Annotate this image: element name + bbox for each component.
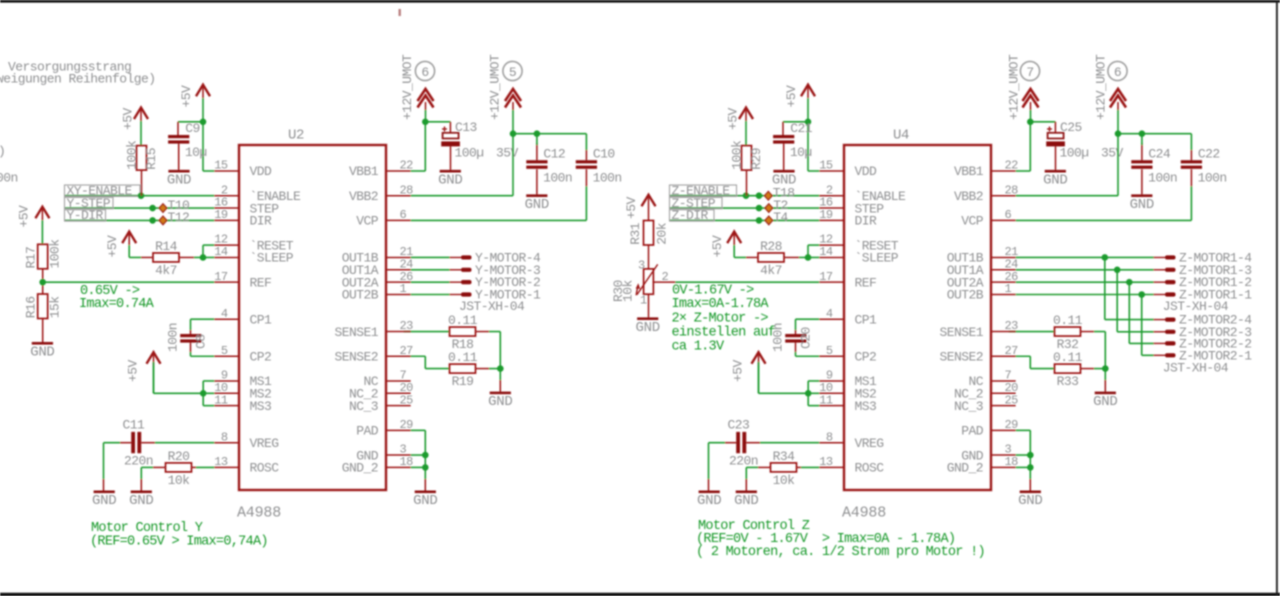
svg-text:18: 18 (1005, 455, 1019, 469)
supply +5V (121, 107, 149, 145)
wire (141, 442, 155, 444)
U4 pin 9 MS1 (819, 369, 877, 390)
svg-text:GND: GND (438, 172, 462, 188)
svg-text:CP2: CP2 (855, 349, 877, 364)
wire (1190, 186, 1192, 220)
svg-text:14: 14 (214, 245, 228, 259)
wire (404, 331, 450, 333)
svg-text:VCP: VCP (961, 214, 984, 229)
net Y-MOTOR-4 flag (450, 250, 542, 265)
wire (796, 318, 820, 320)
wire (1116, 270, 1118, 332)
wire (1081, 331, 1095, 333)
svg-text:+12V_UMOT: +12V_UMOT (488, 54, 503, 120)
wire (808, 170, 819, 172)
U4 pin 11 MS3 (819, 393, 876, 414)
wire (709, 442, 726, 444)
ground (488, 392, 512, 411)
svg-text:C10: C10 (593, 146, 615, 161)
wire (808, 392, 819, 394)
junction (1027, 464, 1034, 471)
U2 pin 17 REF (214, 270, 271, 291)
wire (1081, 368, 1095, 370)
junction (510, 130, 517, 137)
svg-text:C11: C11 (123, 418, 146, 433)
wire (1104, 380, 1106, 392)
svg-text:4: 4 (826, 307, 833, 321)
U2 pin 29 PAD (356, 418, 413, 439)
svg-text:29: 29 (400, 418, 414, 432)
wire (153, 362, 155, 393)
svg-text:): ) (0, 144, 5, 159)
wire (202, 245, 204, 257)
svg-text:OUT2B: OUT2B (947, 288, 984, 303)
supply +5V (126, 352, 161, 393)
svg-text:4: 4 (221, 307, 228, 321)
caption Motor Control Y (91, 521, 203, 536)
wire (782, 122, 784, 135)
svg-text:ROSC: ROSC (250, 461, 280, 476)
ground (1130, 194, 1154, 213)
svg-text:JST-XH-04: JST-XH-04 (1163, 361, 1229, 376)
wire (1016, 269, 1154, 271)
junction (756, 217, 763, 224)
wire (177, 122, 179, 135)
connector label JST-XH-04 (1163, 361, 1229, 376)
ground (1043, 170, 1067, 189)
U4 pin 20 NC_2 (954, 381, 1018, 402)
svg-text:1: 1 (640, 294, 647, 308)
wire (425, 368, 449, 370)
svg-text:R17: R17 (24, 247, 39, 269)
test point T2 (765, 198, 788, 213)
net Z-MOTOR1-1 flag (1154, 288, 1253, 303)
wire (513, 133, 586, 135)
svg-text:R15: R15 (144, 148, 159, 170)
U4 pin 10 MS2 (819, 381, 876, 402)
svg-text:100k: 100k (730, 140, 745, 170)
wire (411, 256, 450, 258)
wire (202, 381, 204, 406)
junction (1027, 452, 1034, 459)
U2 pin 3 GND (356, 443, 410, 464)
svg-text:CP1: CP1 (250, 312, 273, 327)
supply +5V (731, 352, 766, 393)
svg-text:6: 6 (400, 208, 407, 222)
wire (512, 134, 514, 196)
wire (536, 135, 538, 145)
supply +5V (105, 232, 136, 258)
wire (194, 256, 203, 258)
wire (154, 392, 204, 394)
net label Y-DIR (65, 208, 106, 223)
wire (734, 256, 746, 258)
svg-text:C24: C24 (1148, 146, 1171, 161)
svg-text:+12V_UMOT: +12V_UMOT (1094, 54, 1109, 120)
wire (801, 466, 819, 468)
ground (636, 317, 660, 336)
svg-text:6: 6 (421, 65, 428, 80)
junction (422, 452, 429, 459)
svg-text:A4988: A4988 (842, 505, 886, 522)
svg-text:+5V: +5V (624, 196, 639, 219)
resistor R16 (24, 294, 63, 319)
wire (42, 318, 44, 342)
wire (746, 256, 758, 258)
test point T12 (159, 210, 189, 225)
supply +5V (710, 232, 741, 258)
supply +5V (784, 85, 815, 122)
svg-text:C8: C8 (194, 334, 209, 349)
wire (1117, 134, 1119, 196)
svg-text:VCP: VCP (356, 214, 379, 229)
svg-text:GND: GND (734, 493, 758, 509)
svg-text:NC_3: NC_3 (954, 399, 983, 414)
capacitor C12 (526, 146, 572, 185)
junction (422, 119, 429, 126)
annotation 0.65V (80, 284, 140, 299)
wire (203, 405, 214, 407)
svg-text:13: 13 (819, 455, 833, 469)
wire (190, 343, 192, 352)
svg-text:NC_3: NC_3 (349, 399, 378, 414)
wire (191, 355, 215, 357)
svg-text:10k: 10k (168, 473, 191, 488)
junction (1138, 291, 1145, 298)
net label Y-STEP (65, 196, 114, 211)
U2 pin 10 MS2 (214, 381, 271, 402)
wire (411, 294, 450, 296)
wire (155, 442, 214, 444)
wire (178, 144, 180, 170)
svg-text:4k7: 4k7 (760, 263, 782, 278)
wire (708, 443, 710, 479)
U4 pin 19 DIR (819, 208, 877, 229)
ground (129, 491, 153, 510)
wire (585, 150, 587, 160)
resistor R18 (448, 313, 478, 352)
test point T18 (764, 186, 794, 201)
svg-text:+5V: +5V (710, 235, 725, 258)
junction (422, 464, 429, 471)
connector label JST-XH-04 (1163, 299, 1229, 314)
svg-text:+5V: +5V (121, 107, 136, 130)
svg-text:0.11: 0.11 (448, 313, 478, 328)
svg-text:22: 22 (1005, 159, 1019, 173)
svg-text:23: 23 (1005, 319, 1019, 333)
svg-text:VBB1: VBB1 (349, 164, 379, 179)
wire (141, 466, 153, 468)
svg-text:A4988: A4988 (237, 505, 281, 522)
net Y-MOTOR-3 flag (450, 263, 541, 278)
wire (795, 319, 797, 330)
annotation einstellen (672, 325, 776, 340)
svg-text:Z-DIR: Z-DIR (672, 208, 709, 223)
wire (670, 195, 819, 197)
U4 pin 21 OUT1B (947, 245, 1018, 266)
resistor R29 (730, 140, 765, 170)
wire (1190, 169, 1192, 186)
wire (1029, 356, 1031, 368)
wire (476, 331, 490, 333)
svg-text:PAD: PAD (961, 424, 984, 439)
wire (1055, 146, 1057, 170)
svg-text:GND: GND (167, 172, 191, 188)
svg-text:R33: R33 (1057, 374, 1079, 389)
wire (795, 330, 797, 334)
svg-text:GND: GND (129, 493, 153, 509)
wire (648, 294, 650, 317)
net Z-MOTOR2-2 flag (1154, 336, 1252, 351)
wire (1141, 169, 1143, 194)
U2 pin 2 ENABLE (214, 183, 301, 204)
wire (1054, 122, 1056, 133)
svg-text:VREG: VREG (855, 436, 884, 451)
svg-text:1: 1 (400, 282, 407, 296)
wire (449, 122, 451, 133)
svg-text:C21: C21 (790, 121, 813, 136)
stray mark (399, 9, 401, 16)
junction (1102, 254, 1109, 261)
ground (1018, 491, 1042, 510)
svg-text:C20: C20 (799, 327, 814, 349)
wire (411, 195, 513, 197)
wire (797, 466, 802, 468)
capacitor C25 (polarized) (1046, 120, 1123, 160)
svg-text:100n: 100n (1198, 170, 1227, 185)
svg-text:19: 19 (214, 208, 228, 222)
IC value A4988 of U4 (842, 505, 886, 522)
wire (104, 442, 121, 444)
svg-text:100n: 100n (543, 170, 572, 185)
svg-text:2× Z-Motor ->: 2× Z-Motor -> (672, 311, 769, 326)
wire (1030, 121, 1055, 123)
wire (1016, 294, 1154, 296)
net label Z-ENABLE (670, 184, 737, 199)
U2 pin 23 SENSE1 (334, 319, 413, 340)
wire (807, 122, 809, 171)
svg-text:VDD: VDD (855, 164, 878, 179)
clipped capacitor value 00n (0, 171, 18, 186)
U4 pin 29 PAD (961, 418, 1018, 439)
svg-text:DIR: DIR (250, 214, 273, 229)
U4 pin 14 SLEEP (819, 245, 898, 266)
net Z-MOTOR2-4 flag (1154, 313, 1253, 328)
test point T10 (159, 198, 189, 213)
wire (203, 380, 214, 382)
U4 pin 22 VBB1 (954, 159, 1018, 180)
svg-text:6: 6 (1114, 65, 1121, 80)
wire (1016, 256, 1154, 258)
wire (190, 330, 192, 334)
supply +12V_UMOT sheet ref 5 (488, 54, 523, 134)
U2 pin 16 STEP (214, 196, 279, 217)
svg-text:+12V_UMOT: +12V_UMOT (1007, 54, 1022, 120)
ground (30, 342, 54, 361)
wire (190, 352, 192, 356)
wire (585, 169, 587, 186)
svg-text:GND: GND (1043, 172, 1067, 188)
svg-text:14: 14 (819, 245, 833, 259)
wire (758, 362, 760, 393)
wire (489, 331, 500, 333)
wire (648, 245, 650, 269)
junction (1027, 119, 1034, 126)
svg-text:R34: R34 (773, 449, 796, 464)
wire (190, 319, 192, 330)
svg-text:SENSE1: SENSE1 (939, 325, 983, 340)
svg-text:8: 8 (826, 430, 833, 444)
svg-text:0.11: 0.11 (1053, 313, 1083, 328)
wire (783, 121, 808, 123)
wire (1142, 354, 1154, 356)
svg-text:CP2: CP2 (250, 349, 272, 364)
junction (805, 390, 812, 397)
net Z-MOTOR1-2 flag (1154, 275, 1252, 290)
net label Z-STEP (670, 196, 723, 211)
svg-text:100k: 100k (48, 239, 63, 269)
wire (1094, 331, 1105, 333)
wire (759, 392, 809, 394)
junction (756, 192, 763, 199)
wire (178, 121, 203, 123)
wire (670, 207, 819, 209)
annotation Imax (672, 297, 770, 312)
supply +5V (179, 85, 210, 122)
svg-text:GND: GND (92, 493, 116, 509)
ground (92, 491, 116, 510)
wire (1029, 122, 1031, 171)
capacitor C22 (1181, 146, 1227, 185)
wire (808, 380, 819, 382)
svg-text:SENSE2: SENSE2 (334, 349, 378, 364)
net Z-MOTOR2-3 flag (1154, 325, 1252, 340)
wire (808, 256, 819, 258)
svg-text:einstellen auf: einstellen auf (672, 325, 776, 340)
capacitor C21 (773, 121, 813, 160)
wire (129, 256, 141, 258)
junction (39, 279, 46, 286)
wire (670, 219, 819, 221)
U4 pin 2 ENABLE (819, 183, 906, 204)
junction (200, 390, 207, 397)
svg-text:`SLEEP: `SLEEP (250, 251, 294, 266)
svg-text:10k: 10k (621, 279, 636, 302)
U2 pin 1 OUT2B (342, 282, 411, 303)
resistor R20 (166, 449, 192, 488)
svg-text:23: 23 (400, 319, 414, 333)
svg-text:C23: C23 (728, 418, 750, 433)
svg-text:MS3: MS3 (855, 399, 877, 414)
resistor R19 (448, 350, 478, 389)
U2 pin 13 ROSC (214, 455, 279, 476)
svg-text:10µ: 10µ (790, 145, 812, 160)
wire (1009, 355, 1031, 357)
svg-text:GND: GND (1018, 493, 1042, 509)
svg-text:+5V: +5V (784, 85, 799, 108)
wire (153, 466, 166, 468)
net Y-MOTOR-1 flag (450, 288, 542, 303)
svg-text:R14: R14 (155, 239, 178, 254)
capacitor C23 (728, 418, 759, 469)
svg-text:GND: GND (1130, 197, 1154, 213)
op-amp-style IC body U2 A4988 (239, 145, 386, 490)
resistor R17 (24, 239, 63, 269)
svg-text:GND: GND (30, 345, 54, 361)
IC name U4 (893, 128, 909, 144)
U2 pin 15 VDD (214, 159, 272, 180)
wire (758, 466, 771, 468)
wire (404, 355, 426, 357)
ground (525, 194, 549, 213)
svg-text:17: 17 (214, 270, 228, 284)
junction (1139, 130, 1146, 137)
svg-text:100n: 100n (593, 170, 622, 185)
resistor R15 (125, 140, 160, 170)
capacitor C24 (1131, 146, 1177, 185)
svg-text:MS3: MS3 (250, 399, 272, 414)
U2 pin 5 CP2 (214, 344, 271, 365)
svg-text:35V: 35V (496, 145, 519, 160)
svg-text:GND_2: GND_2 (947, 461, 983, 476)
net Z-MOTOR2-1 flag (1154, 348, 1253, 363)
junction (497, 365, 504, 372)
wire (585, 134, 587, 150)
svg-text:VREG: VREG (250, 436, 279, 451)
svg-text:DIR: DIR (855, 214, 878, 229)
svg-text:11: 11 (214, 393, 228, 407)
svg-text:VBB1: VBB1 (954, 164, 984, 179)
supply +12V_UMOT sheet ref 6 (400, 54, 435, 122)
svg-text:220n: 220n (729, 454, 758, 469)
wire (1104, 332, 1106, 369)
U2 pin 21 OUT1B (342, 245, 413, 266)
svg-text:18: 18 (400, 455, 414, 469)
svg-text:17: 17 (819, 270, 833, 284)
wire (425, 121, 450, 123)
wire (476, 368, 490, 370)
wire (43, 281, 215, 283)
wire (783, 144, 785, 170)
U4 pin 16 STEP (819, 196, 884, 217)
clipped text fragment ) (0, 144, 5, 159)
wire (1029, 479, 1031, 491)
svg-text:( 2 Motoren, ca. 1/2 Strom pro: ( 2 Motoren, ca. 1/2 Strom pro Motor !) (696, 545, 985, 560)
svg-text:8: 8 (221, 430, 228, 444)
svg-text:R29: R29 (749, 148, 764, 170)
wire (1104, 257, 1106, 319)
wire (746, 170, 748, 196)
wire (411, 429, 426, 431)
svg-text:ca 1.3V: ca 1.3V (672, 340, 725, 355)
wire (1129, 342, 1154, 344)
U4 pin 25 NC_3 (954, 393, 1018, 414)
U4 pin 18 GND_2 (947, 455, 1018, 476)
svg-text:+5V: +5V (179, 85, 194, 108)
supply +12V_UMOT sheet ref 7 (1007, 54, 1040, 122)
capacitor C9 (168, 121, 207, 160)
supply +5V (624, 195, 656, 221)
ground (438, 170, 462, 189)
wire (536, 169, 538, 194)
IC value A4988 of U2 (237, 505, 281, 522)
U4 pin 12 RESET (819, 233, 898, 254)
svg-text:VDD: VDD (250, 164, 273, 179)
svg-text:GND: GND (772, 172, 796, 188)
svg-text:100n: 100n (1148, 170, 1177, 185)
wire (424, 122, 426, 171)
resistor R28 (758, 239, 784, 278)
